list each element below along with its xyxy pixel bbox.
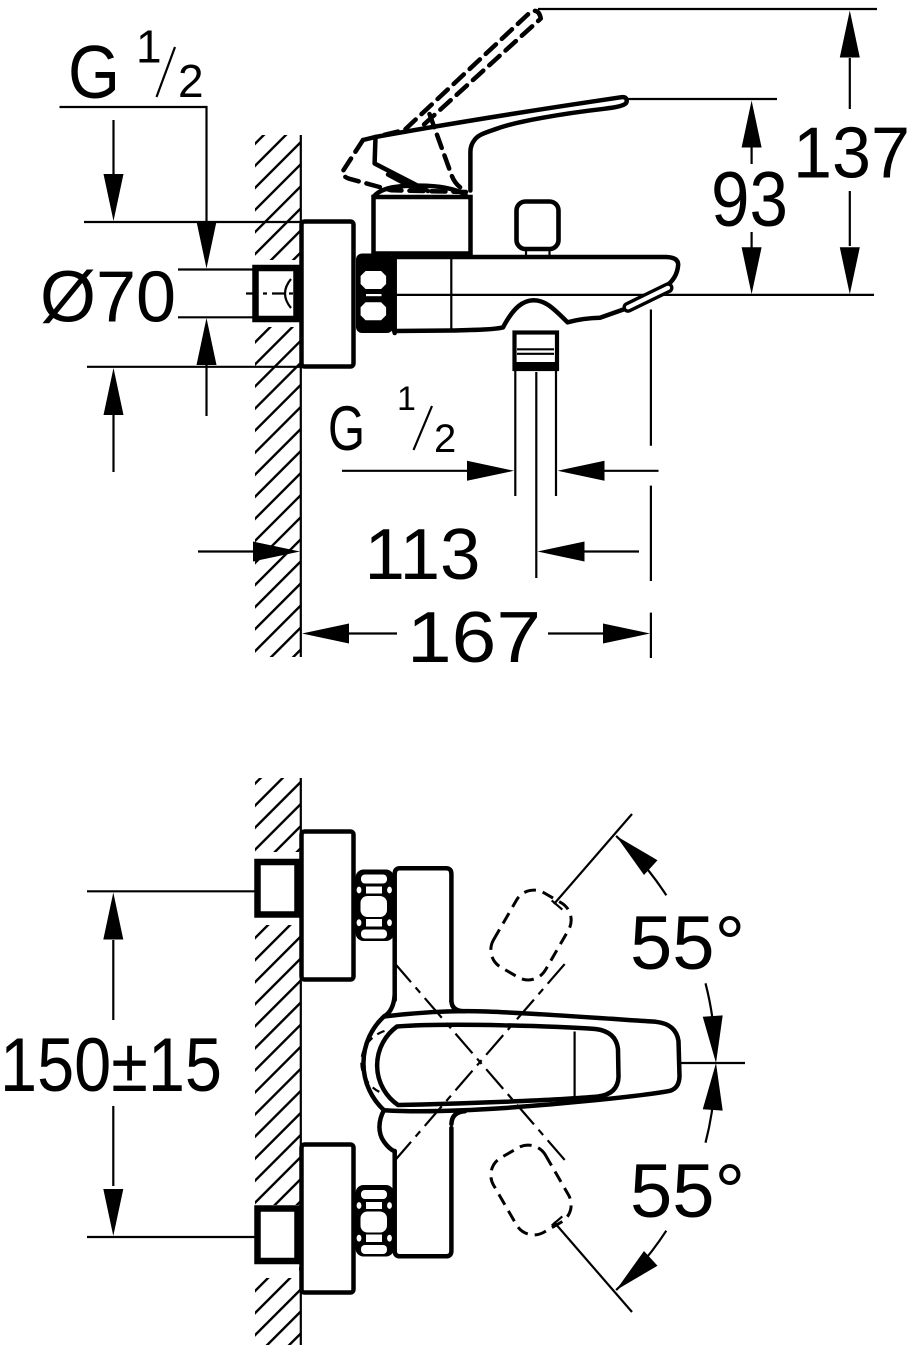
- wall face line (top view): [300, 778, 302, 1345]
- dim 137 arrow up: [840, 11, 860, 58]
- O70 arrow down: [112, 120, 114, 176]
- tick on upper radial: [552, 900, 563, 909]
- upper 55 radial line: [554, 814, 632, 904]
- aerator slot (white inner): [628, 288, 668, 308]
- svg-text:93: 93: [711, 155, 788, 243]
- white margin around wall union: [250, 260, 299, 327]
- wall hatching (top view): [255, 778, 300, 1345]
- G 1/2 leader line: [60, 107, 207, 226]
- dim 150 arrow up: [103, 893, 123, 940]
- ext line union top: [178, 268, 254, 270]
- cartridge dome cap: [374, 186, 466, 197]
- union dashed centerline: [246, 292, 303, 294]
- dim G1/2 pipe: right arrow left and shaft: [558, 461, 605, 481]
- dashed lever part 2: stem edge: [430, 114, 468, 191]
- dashed lever position lower (rotated pill): [484, 1138, 579, 1242]
- svg-text:113: 113: [365, 515, 481, 595]
- lower 55 radial line: [554, 1222, 632, 1312]
- ext line spout tip segment 1: [650, 310, 652, 446]
- svg-text:167: 167: [407, 598, 541, 678]
- dashed lever position upper (rotated pill): [484, 883, 579, 987]
- wall face line (side view): [300, 135, 302, 657]
- lever inner outline (top view): [377, 1025, 618, 1105]
- body internal division line: [450, 258, 452, 329]
- wall union box (side view): [256, 268, 297, 319]
- escutcheon O70 (side view): [302, 222, 354, 367]
- shower pipe right edge: [555, 370, 557, 496]
- dim 113: right arrow pointing left at pipe center: [538, 542, 585, 562]
- O70 arrow up: [112, 413, 114, 472]
- dashed lever part 3: nose left and bottom: [343, 140, 466, 192]
- diverter knob: [517, 202, 559, 250]
- ext line upper union center: [87, 890, 257, 892]
- knob stem left: [525, 249, 527, 255]
- body bar upper part (top view): [395, 868, 452, 1001]
- dim G1/2 pipe: left shaft and arrow right: [342, 470, 470, 472]
- dim 93 arrow down: [750, 232, 752, 250]
- ext line lower union center: [87, 1236, 257, 1238]
- dim 150 arrow down: [112, 1106, 114, 1186]
- ext line union bottom: [178, 316, 254, 318]
- lower arc piece near 55: [616, 1231, 666, 1290]
- dim 113: left arrow pointing right at wall: [198, 550, 256, 552]
- body bar lower part (top view): [395, 1128, 452, 1256]
- upper arc piece near horizontal: [706, 983, 715, 1044]
- shower pipe centerline: [535, 372, 537, 578]
- wall hatching (side view): [255, 135, 300, 657]
- svg-text:1: 1: [136, 21, 162, 73]
- svg-text:G: G: [328, 394, 365, 464]
- dim 167: left arrow pointing left at wall: [302, 624, 349, 644]
- svg-text:2: 2: [434, 417, 456, 461]
- S-union hex nut block: [356, 254, 393, 334]
- dashed centerline to upper pill: [394, 963, 566, 1162]
- dim 167: right shaft and arrow pointing right: [548, 632, 603, 634]
- fillet body to lever bottom: [451, 1111, 465, 1124]
- fillet body to lever top: [451, 1001, 465, 1011]
- faucet body underside with shower boss: [394, 300, 626, 331]
- G1/2 arrow up at x=206.5: [205, 364, 207, 416]
- dashed centerline to lower pill: [394, 963, 566, 1162]
- svg-text:55°: 55°: [630, 1149, 745, 1234]
- svg-text:Ø70: Ø70: [40, 258, 176, 338]
- lower hex nut block (top view): [356, 1185, 395, 1257]
- svg-text:1: 1: [397, 380, 416, 418]
- neck flare bottom (outer): [379, 1110, 394, 1151]
- lower wall union box: [258, 1209, 298, 1262]
- svg-text:G: G: [68, 30, 120, 114]
- lever handle (dashed, raised position) part 1: nose top + blade top + tip + underside: [363, 11, 541, 140]
- knob stem right: [548, 249, 550, 255]
- dashed dome arc (hidden): [361, 1031, 384, 1094]
- body mid reference line (extends right for 93/137 dims): [394, 294, 874, 296]
- union ball arc: [285, 279, 291, 308]
- dim 137 arrow down: [849, 191, 851, 246]
- svg-text:2: 2: [178, 55, 204, 107]
- horizontal reference line at lever tip: [681, 1062, 745, 1064]
- neck flare top: [384, 995, 395, 1017]
- upper escutcheon (top view): [302, 832, 354, 980]
- collar band line 1: [517, 348, 554, 350]
- upper arc piece near 55: [616, 836, 666, 895]
- white margin upper union: [250, 852, 299, 925]
- lever outline (top view, outer): [363, 1011, 679, 1111]
- lower arc piece near horizontal: [706, 1082, 715, 1143]
- faucet body top edge and right curve: [394, 257, 678, 287]
- ext line spout tip segment 2: [650, 486, 652, 581]
- collar bottom black band: [513, 362, 559, 370]
- G1/2 arrow down at x=206.5: [197, 222, 217, 269]
- shower outlet collar: [515, 333, 558, 370]
- upper arc arrow down at reference line: [703, 1015, 726, 1063]
- aerator slot (black capsule): [628, 288, 668, 308]
- upper arc arrow at 55 end: [609, 829, 657, 875]
- cartridge housing box: [374, 197, 471, 254]
- dim 93 arrow up: [742, 101, 762, 148]
- lower arc arrow up at reference line: [703, 1062, 726, 1110]
- white margin lower union: [250, 1205, 299, 1278]
- lever face division line: [573, 1032, 575, 1098]
- ext line top of escutcheon: [84, 221, 300, 223]
- svg-text:137: 137: [793, 113, 910, 193]
- ext line lever tip (93): [627, 98, 777, 100]
- ext line spout tip segment 3: [650, 613, 652, 658]
- tick on lower radial: [552, 1216, 563, 1225]
- collar band line 2: [517, 353, 554, 355]
- lever handle (solid, side view): [375, 97, 627, 191]
- hex nut 1 (white hexagon): [361, 271, 387, 289]
- upper hex nut block (top view): [356, 870, 395, 942]
- hex nut 2 (white hexagon): [361, 302, 387, 320]
- svg-text:150±15: 150±15: [0, 1023, 222, 1108]
- lower arc arrow at 55 end: [609, 1251, 657, 1297]
- shower pipe left edge: [514, 370, 516, 496]
- upper wall union box: [258, 862, 298, 915]
- faucet body left edge: [392, 255, 397, 333]
- lever inner bottom edge line: [388, 175, 417, 191]
- ext line bottom of escutcheon: [87, 366, 300, 368]
- svg-text:55°: 55°: [630, 901, 745, 986]
- lower escutcheon (top view): [302, 1145, 354, 1293]
- ext line top (dashed lever tip, 137): [538, 8, 877, 10]
